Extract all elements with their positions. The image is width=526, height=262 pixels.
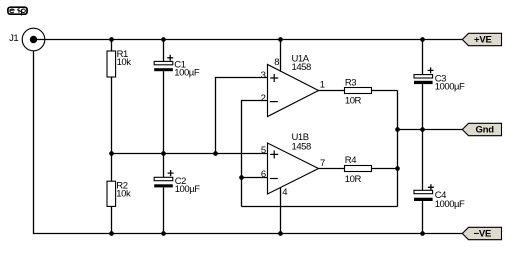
- svg-text:5: 5: [261, 145, 266, 156]
- svg-text:100µF: 100µF: [175, 184, 201, 195]
- svg-text:10R: 10R: [345, 174, 362, 185]
- svg-text:R4: R4: [345, 155, 356, 166]
- svg-text:Gnd: Gnd: [476, 125, 495, 136]
- svg-text:1458: 1458: [292, 62, 312, 73]
- svg-text:J1: J1: [9, 33, 18, 44]
- svg-text:−VE: −VE: [474, 229, 492, 240]
- svg-text:6: 6: [261, 169, 266, 180]
- svg-text:1000µF: 1000µF: [435, 199, 465, 210]
- svg-text:+VE: +VE: [474, 34, 492, 45]
- svg-text:1: 1: [320, 80, 325, 91]
- svg-text:10R: 10R: [345, 96, 362, 107]
- svg-text:10k: 10k: [117, 57, 132, 68]
- svg-text:100µF: 100µF: [174, 68, 200, 79]
- svg-text:10k: 10k: [116, 188, 131, 199]
- svg-text:2: 2: [261, 93, 266, 104]
- svg-text:1458: 1458: [292, 141, 312, 152]
- svg-text:1000µF: 1000µF: [435, 82, 465, 93]
- svg-text:3: 3: [261, 70, 266, 81]
- svg-text:7: 7: [320, 158, 325, 169]
- svg-text:8: 8: [274, 57, 279, 68]
- svg-text:4: 4: [282, 187, 287, 198]
- svg-text:R3: R3: [345, 78, 356, 89]
